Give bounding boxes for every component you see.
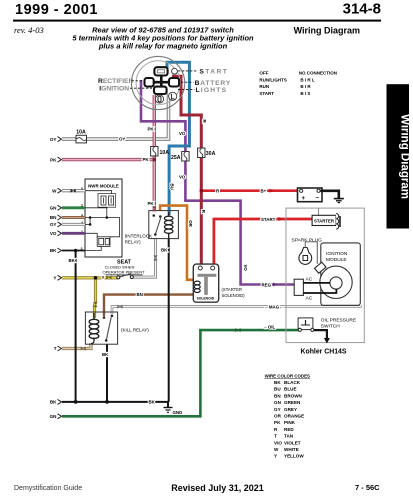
svg-text:Wiring Diagram: Wiring Diagram xyxy=(294,26,360,36)
svg-text:Y: Y xyxy=(53,276,56,281)
wire BK battery to ground xyxy=(321,191,339,198)
svg-text:NWR MODULE: NWR MODULE xyxy=(88,183,119,188)
svg-text:3: 3 xyxy=(81,247,83,251)
svg-text:Revised July 31, 2021: Revised July 31, 2021 xyxy=(171,483,264,493)
oil pressure switch xyxy=(298,318,356,332)
svg-text:BK: BK xyxy=(102,352,109,357)
svg-text:GY: GY xyxy=(274,407,281,412)
svg-text:W: W xyxy=(274,447,279,452)
connector on T wire at K2 xyxy=(81,346,86,350)
svg-text:AC: AC xyxy=(306,277,313,283)
wire GY from seat switch to interlock relay arm xyxy=(132,238,156,277)
svg-text:BATTERY: BATTERY xyxy=(195,80,231,87)
svg-text:OPERATOR PRESENT: OPERATOR PRESENT xyxy=(102,270,145,275)
svg-text:BLUE: BLUE xyxy=(284,387,297,392)
wire BN to module xyxy=(62,216,85,219)
terminal B (right) xyxy=(169,78,179,87)
svg-text:Demystification Guide: Demystification Guide xyxy=(14,485,82,492)
svg-text:BN: BN xyxy=(50,215,57,220)
svg-text:SOLENOID): SOLENOID) xyxy=(222,293,246,298)
svg-text:←MAG←: ←MAG← xyxy=(265,305,284,310)
spark plug lead xyxy=(305,242,317,264)
svg-text:BK: BK xyxy=(161,247,168,252)
svg-text:BK: BK xyxy=(149,400,156,405)
ground GND xyxy=(164,408,173,413)
svg-text:VO: VO xyxy=(179,174,186,179)
svg-text:7 - 56C: 7 - 56C xyxy=(355,483,380,492)
wire BK oil pressure switch to engine ground xyxy=(313,330,327,339)
svg-text:NO CONNECTION: NO CONNECTION xyxy=(299,70,337,75)
svg-text:OR: OR xyxy=(274,414,282,419)
wire OR from interlock relay to solenoid coil xyxy=(160,206,197,282)
svg-text:OIL PRESSURE: OIL PRESSURE xyxy=(321,318,356,324)
svg-text:BN: BN xyxy=(137,292,143,297)
connector on PK wire at K1 xyxy=(152,206,156,211)
sidebar tab xyxy=(387,84,411,228)
svg-text:ORANGE: ORANGE xyxy=(284,414,304,419)
svg-text:PK: PK xyxy=(50,157,57,162)
wire GY MAG from kill relay to ignition module xyxy=(112,305,360,314)
solenoid terminals xyxy=(198,266,202,270)
svg-text:25A: 25A xyxy=(171,155,181,161)
wire OY (lights feed, grey outlined): switch LIGHTS terminal down, left through 10A fuse to connector xyxy=(62,93,169,139)
junction dot BK module xyxy=(74,249,78,253)
svg-text:IGNITION: IGNITION xyxy=(326,251,348,257)
flywheel xyxy=(320,266,352,298)
wire PK horizontal from connector to junction xyxy=(62,158,154,161)
svg-text:BU: BU xyxy=(170,184,175,190)
ground (battery) xyxy=(334,199,344,203)
svg-text:START: START xyxy=(199,68,228,75)
wire R dark from 30A fuse to B+ junction and solenoid xyxy=(200,156,203,268)
svg-text:+: + xyxy=(302,196,306,202)
wire color codes table xyxy=(265,373,310,458)
junction dot PK xyxy=(153,158,157,162)
fuse F2 10A (PK line, vertical) xyxy=(151,147,170,157)
module pickup (tilted) xyxy=(315,262,326,273)
wire GN bottom bus to oil pressure switch xyxy=(62,330,299,416)
key switch (rear view) xyxy=(132,56,185,109)
svg-text:BU: BU xyxy=(274,387,281,392)
screw circle L xyxy=(169,92,177,100)
seat switch xyxy=(102,259,145,279)
svg-text:GREEN: GREEN xyxy=(284,400,301,405)
svg-text:10A: 10A xyxy=(160,150,170,156)
svg-text:30A: 30A xyxy=(206,151,216,157)
svg-text:GN: GN xyxy=(274,400,282,405)
svg-text:B I S: B I S xyxy=(300,91,310,96)
module internal relay upper xyxy=(98,194,116,208)
connector on GN oil wire xyxy=(235,328,240,332)
arrow on START wire xyxy=(279,217,283,221)
svg-text:BN: BN xyxy=(274,393,281,398)
svg-text:(KILL RELAY): (KILL RELAY) xyxy=(121,328,149,333)
wire PK vertical from switch I terminal through fuse to interlock relay xyxy=(153,95,156,210)
svg-text:B+: B+ xyxy=(261,189,267,194)
junction dot BK bus 2 xyxy=(105,400,109,404)
svg-text:GREY: GREY xyxy=(284,407,297,412)
svg-text:B I R: B I R xyxy=(300,84,311,89)
svg-text:PK: PK xyxy=(274,420,281,425)
svg-text:OY: OY xyxy=(119,137,125,142)
junction dot B+ xyxy=(200,189,204,193)
battery xyxy=(298,188,323,202)
terminal I (bottom) xyxy=(154,87,167,94)
starter mount line xyxy=(318,208,320,215)
svg-text:VO: VO xyxy=(243,265,248,272)
wire T from connector to kill relay coil xyxy=(62,343,91,349)
connector on Y wire at K2 xyxy=(93,302,97,307)
arrow on REG wire xyxy=(273,283,277,287)
svg-text:PINK: PINK xyxy=(284,420,296,425)
svg-text:OY: OY xyxy=(50,222,57,227)
starter motor xyxy=(312,214,340,230)
wire R START from solenoid to starter xyxy=(214,219,312,268)
solenoid T contact xyxy=(198,274,217,277)
connector on W wire xyxy=(71,189,76,193)
svg-text:PK: PK xyxy=(148,201,155,206)
svg-text:1999 - 2001: 1999 - 2001 xyxy=(15,2,98,18)
junction dot BK bus 1 xyxy=(74,400,78,404)
svg-text:PK: PK xyxy=(148,126,155,131)
wire GN to module xyxy=(62,206,85,209)
ignition module xyxy=(315,243,361,305)
solenoid coil xyxy=(194,281,200,292)
svg-text:YELLOW: YELLOW xyxy=(284,454,304,459)
wire BK kill relay to ground bus xyxy=(106,344,108,402)
wire VO to module xyxy=(62,232,85,235)
svg-text:–: – xyxy=(316,194,320,201)
starter solenoid xyxy=(193,264,218,302)
svg-text:PK: PK xyxy=(143,157,150,162)
wire BU from switch S terminal to interlock relay coil xyxy=(167,62,189,215)
seat switch contacts xyxy=(117,276,120,279)
svg-text:REG: REG xyxy=(262,282,272,287)
svg-text:BK: BK xyxy=(274,380,281,385)
svg-text:Kohler CH14S: Kohler CH14S xyxy=(301,349,347,356)
svg-text:Wiring Diagram: Wiring Diagram xyxy=(399,114,411,199)
spark plug xyxy=(292,237,323,264)
svg-text:SWITCH: SWITCH xyxy=(321,324,340,330)
inline wire labels xyxy=(69,120,284,405)
svg-text:10A: 10A xyxy=(76,129,86,135)
svg-text:RECTIFIER: RECTIFIER xyxy=(98,78,133,85)
svg-text:RUN/LIGHTS: RUN/LIGHTS xyxy=(259,77,287,82)
terminal R (left) xyxy=(145,78,154,87)
module internal wiring xyxy=(85,191,120,251)
wire BK connector to module pin 3 xyxy=(62,250,85,252)
screw circle I xyxy=(155,95,163,103)
svg-text:WIRE COLOR CODES: WIRE COLOR CODES xyxy=(265,373,310,378)
connector on MAG wire at K2 xyxy=(117,305,122,309)
svg-text:OR: OR xyxy=(188,220,193,227)
stator / AC leads xyxy=(294,277,336,302)
K1 coil xyxy=(164,216,173,233)
svg-text:314-8: 314-8 xyxy=(343,1,381,18)
svg-text:VIOLET: VIOLET xyxy=(284,440,301,445)
svg-text:CLOSED WHEN: CLOSED WHEN xyxy=(105,264,135,269)
svg-text:OFF: OFF xyxy=(259,70,268,75)
svg-text:BLACK: BLACK xyxy=(284,380,301,385)
wire BN from solenoid coil to kill relay xyxy=(104,292,197,316)
svg-text:AC: AC xyxy=(306,296,313,302)
svg-text:SOLENOID: SOLENOID xyxy=(196,296,214,300)
NWR module box xyxy=(81,179,123,257)
svg-text:IGNITION: IGNITION xyxy=(99,85,129,92)
screw circle top right xyxy=(172,68,178,74)
svg-text:WHITE: WHITE xyxy=(284,447,299,452)
svg-text:START: START xyxy=(261,217,276,222)
svg-text:RUN: RUN xyxy=(259,84,269,89)
svg-text:LIGHTS: LIGHTS xyxy=(196,87,228,94)
svg-text:plus a kill relay for magneto: plus a kill relay for magneto ignition xyxy=(98,42,228,51)
fuse F1 10A (OY line, horizontal) xyxy=(76,129,87,143)
wire VO from switch R terminal to 25A fuse to regulator xyxy=(141,80,294,285)
connector on GY wire below K1 xyxy=(153,255,157,260)
module pin numbers xyxy=(81,187,84,251)
svg-text:STARTER: STARTER xyxy=(314,219,335,224)
fuse F3 25A (VO line, vertical) xyxy=(171,152,189,162)
K2 coil xyxy=(89,319,99,338)
wire W to module pin 6 xyxy=(62,189,85,192)
switch cross bars xyxy=(144,72,180,94)
svg-text:BROWN: BROWN xyxy=(284,393,303,398)
label RECTIFIER with leader xyxy=(98,68,231,94)
svg-text:Y: Y xyxy=(102,275,105,280)
svg-text:VO: VO xyxy=(50,231,57,236)
ground arrow (oil switch to block) xyxy=(324,338,330,344)
svg-text:RELAY): RELAY) xyxy=(125,240,141,245)
engine box xyxy=(286,208,364,343)
svg-text:B I R L: B I R L xyxy=(300,77,315,82)
svg-text:←OIL: ←OIL xyxy=(264,325,276,330)
svg-text:(STARTER: (STARTER xyxy=(222,287,243,292)
header rule xyxy=(13,20,381,22)
wire Y from connector through junction down to kill relay coil xyxy=(62,278,118,318)
key position table xyxy=(259,70,337,95)
svg-text:MODULE: MODULE xyxy=(326,257,347,263)
wire OY to module xyxy=(62,223,85,226)
svg-text:Y: Y xyxy=(274,454,277,459)
svg-text:(INTERLOCK: (INTERLOCK xyxy=(125,234,152,239)
arrow on B+ wire xyxy=(270,189,274,193)
svg-text:W: W xyxy=(52,188,57,193)
junction dot Y xyxy=(94,276,98,280)
K1 contacts and arm xyxy=(153,214,156,217)
connector on Y wire at seat xyxy=(106,275,111,279)
K2 contacts and arm xyxy=(103,316,106,319)
svg-text:GN: GN xyxy=(50,206,58,211)
terminal S (top) xyxy=(154,67,167,75)
svg-text:VO: VO xyxy=(179,131,186,136)
svg-text:GN: GN xyxy=(50,414,58,419)
svg-text:T: T xyxy=(54,346,57,351)
wire BK module drop to ground bus xyxy=(75,251,77,402)
svg-text:GND: GND xyxy=(173,410,183,415)
svg-text:BK: BK xyxy=(50,248,57,253)
svg-text:BK: BK xyxy=(50,400,57,405)
svg-text:RED: RED xyxy=(284,427,294,432)
harness connector labels xyxy=(50,137,58,419)
fuse F4 30A (R line, vertical) xyxy=(198,148,216,158)
interlock relay K1 xyxy=(149,206,179,260)
svg-text:T: T xyxy=(274,434,277,439)
svg-text:START: START xyxy=(259,91,274,96)
module internal relay lower xyxy=(97,237,110,247)
svg-text:OY: OY xyxy=(50,137,57,142)
kill relay K2 xyxy=(81,302,123,351)
harness connector symbols at left edge xyxy=(58,137,62,419)
wire BK interlock relay coil to ground bus xyxy=(168,239,170,402)
wire BK ground bus to GND xyxy=(62,402,168,408)
svg-text:rev. 4-03: rev. 4-03 xyxy=(14,25,44,35)
wire R dark from switch B terminal to 30A fuse xyxy=(174,76,202,150)
svg-text:BK: BK xyxy=(69,258,76,263)
svg-text:TAN: TAN xyxy=(284,434,294,439)
svg-text:VIO: VIO xyxy=(274,440,282,445)
wire R B+ to battery xyxy=(201,189,297,192)
